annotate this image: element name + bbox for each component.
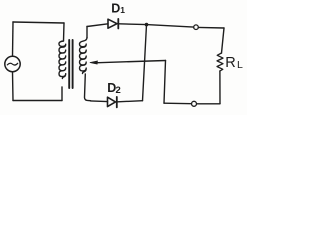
wire junction to top terminal [147, 25, 194, 28]
bottom terminal [192, 101, 197, 106]
wire bottom-left horizontal [13, 100, 62, 102]
wire diode-junction vertical [143, 25, 147, 101]
wire right vertical upper [222, 28, 225, 53]
diode D2 [108, 97, 116, 106]
wire primary top lead [63, 23, 66, 41]
wire primary bottom lead [61, 87, 63, 101]
wire to D2 anode [91, 100, 108, 103]
wire center-tap vertical [164, 61, 166, 104]
top terminal [194, 25, 199, 30]
junction node [145, 23, 149, 27]
wire D1 cathode to junction [119, 23, 147, 26]
wire D2 cathode to vertical [118, 101, 143, 102]
wire terminal to top-right corner [198, 26, 224, 29]
transformer T1 secondary winding [80, 38, 88, 74]
diode D1 [108, 19, 117, 28]
wire bottom terminal to center-tap corner [164, 102, 192, 105]
wire bottom-right horizontal [197, 103, 220, 105]
wire top-left horizontal [13, 22, 64, 23]
wire secondary top lead [86, 27, 88, 38]
wire left vertical lower [12, 72, 15, 101]
wire right vertical lower [219, 71, 221, 104]
resistor RL [217, 53, 223, 71]
svg-text:L: L [237, 59, 243, 71]
center-tap arrow [90, 61, 98, 64]
svg-text:D: D [111, 2, 120, 16]
svg-text:2: 2 [116, 85, 121, 96]
transformer T1 primary winding [59, 41, 66, 79]
transformer T1 core [68, 40, 70, 88]
ac source V1 [5, 56, 20, 71]
wire center-tap horizontal [95, 61, 166, 63]
wire left vertical upper [12, 22, 15, 56]
wire secondary to D1 anode [87, 24, 108, 27]
wire secondary bottom lead [85, 74, 91, 101]
svg-text:1: 1 [120, 5, 125, 15]
svg-text:R: R [225, 55, 235, 71]
